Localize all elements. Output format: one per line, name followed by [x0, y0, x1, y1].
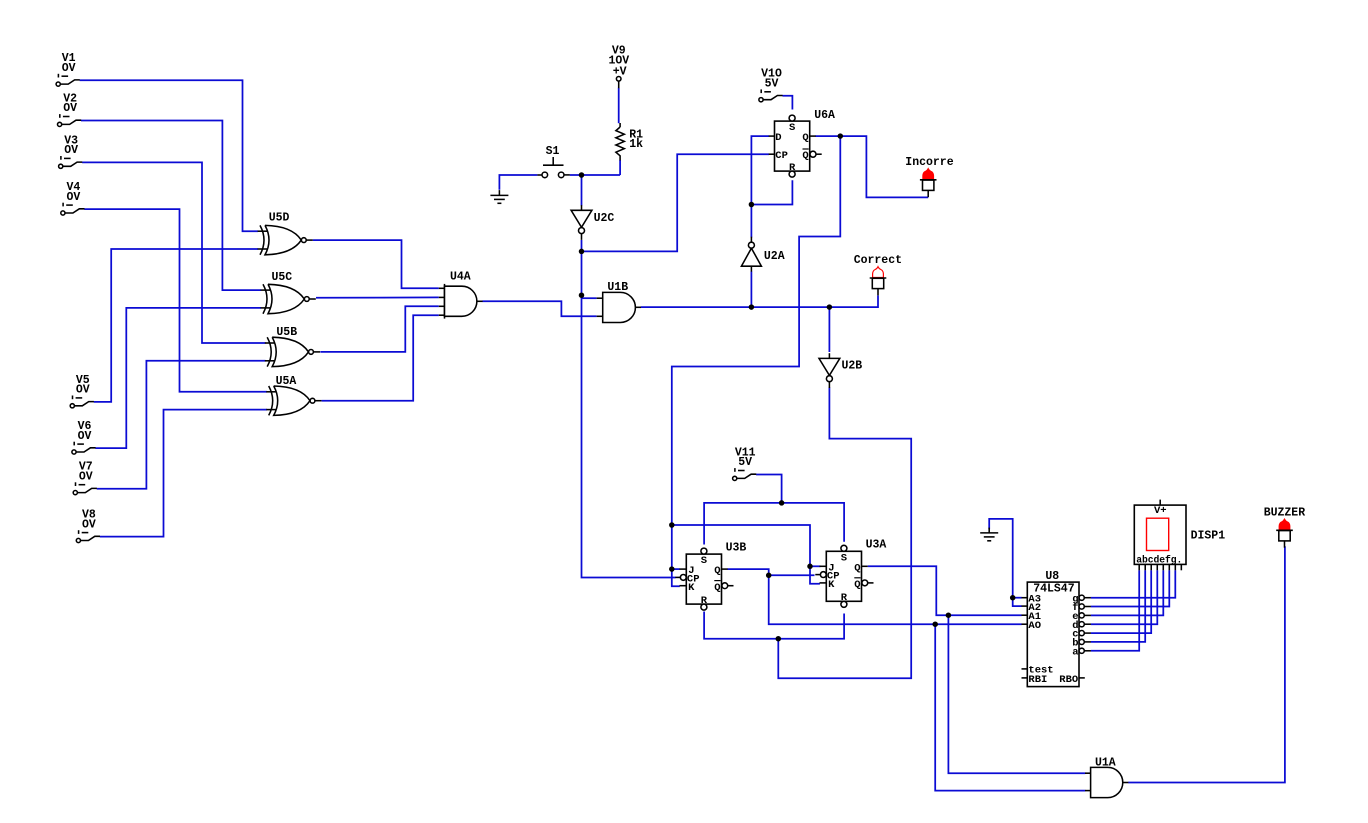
- wire V10 to U6A S pin: [783, 96, 793, 110]
- wire net V7: [97, 361, 266, 489]
- svg-text:DISP1: DISP1: [1191, 529, 1226, 542]
- switch V8: [76, 530, 100, 542]
- wire D-node branch to U6A R pin: [751, 180, 792, 204]
- wire U2C output junction down to U1B and U3B CP: [582, 240, 676, 578]
- svg-text:U2C: U2C: [594, 212, 615, 225]
- wire to U1B top input: [582, 297, 597, 299]
- switch S1 pushbutton: [537, 145, 569, 178]
- switch V10: [759, 89, 783, 101]
- svg-text:U5C: U5C: [272, 271, 293, 284]
- wire U6A D to U2A output: [751, 136, 769, 237]
- svg-text:U4A: U4A: [450, 271, 471, 284]
- svg-text:5V: 5V: [765, 78, 779, 91]
- svg-text:OV: OV: [79, 470, 93, 483]
- wire net V3: [82, 162, 265, 343]
- svg-text:5V: 5V: [738, 456, 752, 469]
- wire ground to 74LS47 A3 A2: [989, 519, 1022, 606]
- wire U3A Q to 74LS47 A1: [868, 566, 1022, 615]
- wire J-feed branch U3B J: [672, 568, 680, 570]
- wire A1 branch down to U1A input: [948, 615, 1085, 773]
- switch V6: [72, 442, 96, 454]
- wire net V2: [81, 121, 261, 291]
- svg-text:OV: OV: [64, 144, 78, 157]
- and gate U4A: [439, 271, 483, 319]
- switch V11: [733, 468, 757, 480]
- svg-text:R: R: [701, 595, 708, 607]
- wire U3A J stub: [810, 565, 821, 567]
- junction U3B J: [669, 566, 675, 572]
- svg-text:abcdefg.: abcdefg.: [1136, 554, 1182, 565]
- wire A0 net long horizontal: [769, 575, 1022, 624]
- wire net V1: [80, 80, 258, 231]
- svg-text:OV: OV: [63, 102, 77, 115]
- junction U2C output: [579, 249, 585, 255]
- wire U6A Q to Incorrect LED: [815, 136, 928, 197]
- wire A0 branch down to U1A input: [935, 624, 1085, 790]
- wire U2B input: [828, 307, 830, 352]
- wire U3B Q to U3A CP: [728, 569, 815, 575]
- svg-text:Q: Q: [854, 562, 860, 574]
- wire R1 bottom to node: [619, 160, 621, 175]
- svg-text:S: S: [701, 555, 707, 567]
- wire ground to S1: [499, 175, 537, 190]
- wire U4A output to U1B: [482, 301, 596, 316]
- junction ground-A3: [1010, 595, 1016, 601]
- svg-text:K: K: [688, 582, 695, 594]
- switch V3: [59, 156, 83, 168]
- switch V7: [73, 482, 97, 494]
- svg-text:OV: OV: [82, 518, 96, 531]
- wire U5A output to U4A: [322, 315, 439, 401]
- svg-text:R: R: [841, 592, 848, 604]
- junction J-feed: [669, 522, 675, 528]
- switch V2: [58, 114, 82, 126]
- seven segment display DISP1: [1134, 500, 1225, 571]
- junction U6A D node: [749, 202, 755, 208]
- svg-text:R: R: [789, 162, 796, 174]
- svg-text:Correct: Correct: [854, 254, 902, 267]
- svg-text:S: S: [841, 552, 847, 564]
- wire net V8: [100, 410, 267, 537]
- resistor R1: [616, 123, 643, 160]
- wire 74LS47 outputs to display segments: [1091, 570, 1176, 598]
- decoder U8 74LS47: [1022, 570, 1091, 686]
- switch V5: [70, 396, 94, 408]
- junction A0 node: [932, 621, 938, 627]
- junction U2B input on U1B output: [827, 304, 833, 310]
- wire U2C junction to U6A CP: [582, 154, 770, 251]
- switch V1: [56, 74, 80, 86]
- svg-text:S1: S1: [546, 145, 560, 158]
- svg-text:OV: OV: [76, 384, 90, 397]
- junction R net: [776, 636, 782, 642]
- svg-text:D: D: [775, 132, 781, 144]
- wire U5D output to U4A: [313, 240, 439, 288]
- wire U5C output to U4A: [316, 296, 439, 298]
- svg-text:Incorre: Incorre: [905, 156, 953, 169]
- svg-text:K: K: [828, 579, 835, 591]
- svg-text:AO: AO: [1028, 620, 1041, 632]
- wire J-feed branch to U3A: [672, 525, 820, 584]
- svg-text:U5D: U5D: [269, 212, 290, 225]
- and gate U1B: [597, 281, 641, 323]
- wire U3B R to U3A R: [704, 612, 844, 639]
- wire U6A Q down to JK J/K inputs: [672, 136, 841, 586]
- svg-text:1k: 1k: [629, 138, 643, 151]
- svg-text:U2B: U2B: [842, 360, 863, 373]
- junction V11 node: [779, 500, 785, 506]
- svg-text:U8: U8: [1045, 570, 1059, 583]
- wire V11 to JK set pins: [704, 475, 782, 545]
- junction A1 node: [946, 612, 952, 618]
- wire U2B output to JK reset net: [778, 388, 911, 679]
- svg-text:Q: Q: [802, 150, 808, 162]
- svg-text:U3A: U3A: [866, 539, 887, 552]
- svg-text:RBO: RBO: [1059, 674, 1078, 686]
- wire U1A output to buzzer: [1128, 546, 1285, 782]
- svg-text:CP: CP: [775, 150, 788, 162]
- junction U1B top input: [579, 292, 585, 298]
- svg-text:BUZZER: BUZZER: [1264, 507, 1306, 520]
- svg-text:a: a: [1072, 646, 1079, 658]
- svg-text:RBI: RBI: [1028, 674, 1047, 686]
- svg-text:Q: Q: [714, 565, 720, 577]
- svg-text:S: S: [789, 122, 795, 134]
- wire U5B output to U4A: [320, 306, 439, 352]
- svg-text:U2A: U2A: [764, 250, 785, 263]
- voltage source V9 +V: [608, 45, 629, 88]
- junction U3A J: [807, 564, 813, 570]
- svg-text:V+: V+: [1154, 505, 1167, 517]
- junction U6A Q node: [838, 133, 844, 139]
- svg-text:Q: Q: [714, 582, 720, 594]
- svg-text:U6A: U6A: [814, 109, 835, 122]
- switch V4: [61, 203, 85, 215]
- wire V11 branch to U3A S: [782, 503, 845, 542]
- wire R1 top from +V: [618, 88, 620, 123]
- svg-text:U3B: U3B: [726, 541, 747, 554]
- wire S1 to node: [570, 174, 620, 176]
- svg-text:Q: Q: [854, 579, 860, 591]
- wire net V5: [94, 249, 258, 402]
- junction node S1-R1-U2C: [579, 172, 585, 178]
- svg-text:OV: OV: [78, 430, 92, 443]
- wire U1B output to Correct LED and inverters: [641, 296, 878, 308]
- ground near S1: [490, 190, 508, 203]
- junction U2A input on U1B output: [749, 304, 755, 310]
- wire net V4: [84, 209, 267, 392]
- svg-text:OV: OV: [62, 62, 76, 75]
- and gate U1A: [1085, 756, 1128, 797]
- svg-text:OV: OV: [66, 191, 80, 204]
- wire net V6: [95, 308, 261, 448]
- svg-text:Q: Q: [802, 132, 808, 144]
- ground near 74LS47: [980, 528, 998, 541]
- wire A3 stub: [1013, 597, 1022, 599]
- junction U3B Q node: [766, 573, 772, 579]
- wire node to U2C input: [581, 175, 583, 206]
- wire U2A input from U1B output node: [750, 272, 752, 308]
